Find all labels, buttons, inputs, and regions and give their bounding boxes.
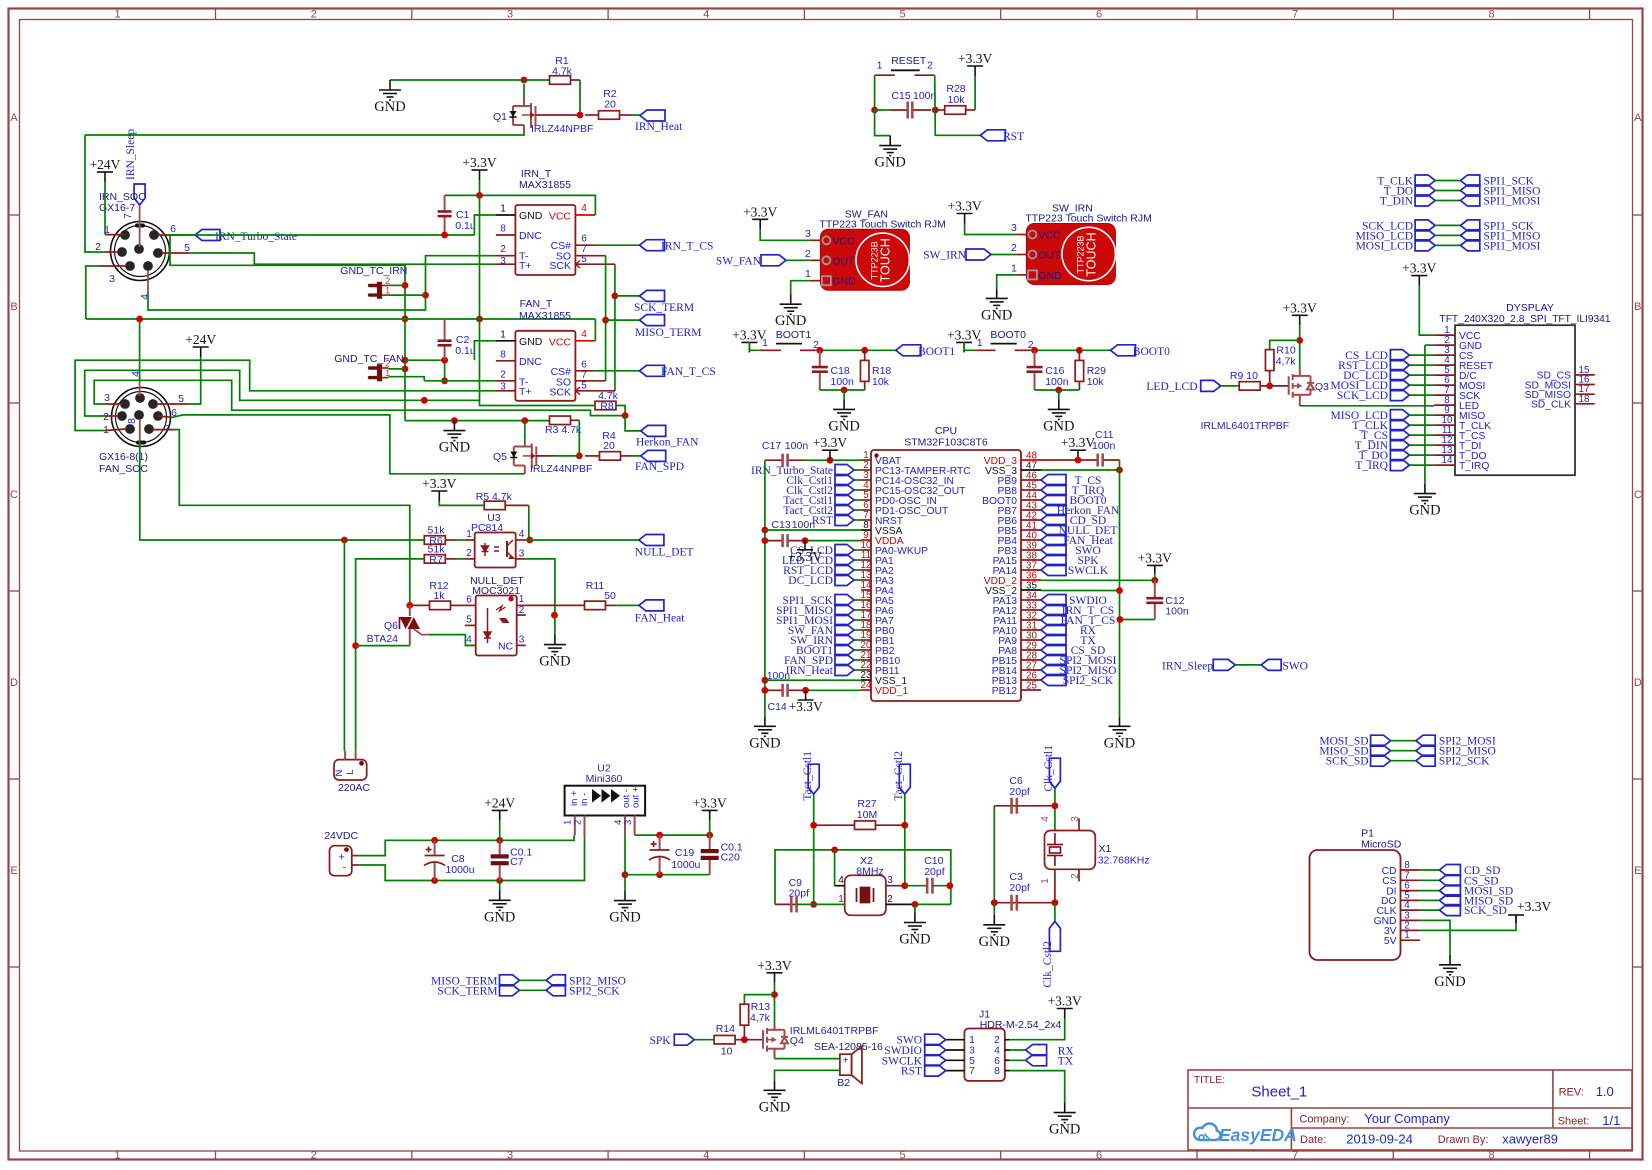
svg-text:6: 6 <box>466 595 472 606</box>
svg-text:24VDC: 24VDC <box>324 830 358 842</box>
ground <box>833 399 855 419</box>
net flag T_CLK <box>1390 420 1409 431</box>
pin 6 lead (CS#) <box>575 244 595 246</box>
power flag +3.3V <box>702 810 718 820</box>
wire tie <box>520 979 547 981</box>
wire sw1 down <box>874 75 876 110</box>
speaker B2 <box>840 1046 862 1083</box>
ground <box>1048 399 1070 419</box>
pin 9 lead <box>1434 414 1455 416</box>
net flag FAN_Heat <box>1041 535 1066 546</box>
wire +3.3V to R28 <box>974 76 976 110</box>
net flag BOOT0 <box>1111 345 1136 356</box>
svg-text:1: 1 <box>500 204 506 215</box>
U2 pin 3 lead <box>634 816 636 836</box>
power flag +3.3V <box>1292 315 1308 325</box>
resistor R13 <box>740 1004 749 1039</box>
wire C14 to VDD_1 <box>806 689 861 691</box>
wire NULL_DET <box>526 539 639 541</box>
svg-text:VCC: VCC <box>549 211 572 223</box>
node C cap <box>1031 347 1038 354</box>
net tie SCK_TERM-SPI2_SCK <box>500 985 520 996</box>
wire to R1 <box>524 79 550 81</box>
net flag IRN_T_CS <box>640 240 665 251</box>
wire tie <box>1435 190 1460 192</box>
pin 2 lead <box>1016 254 1026 256</box>
svg-text:2: 2 <box>466 548 472 559</box>
pin 12 lead <box>1434 444 1455 446</box>
svg-text:2: 2 <box>103 411 109 423</box>
wire VCC drop FAN_T <box>594 319 596 341</box>
svg-text:A: A <box>10 112 18 124</box>
svg-text:100n: 100n <box>1045 376 1069 388</box>
svg-text:8: 8 <box>994 1066 1000 1077</box>
wire Q1 source stub <box>523 125 525 136</box>
svg-text:IRLZ44NPBF: IRLZ44NPBF <box>530 463 592 475</box>
node Q1 drain / R2 <box>577 112 584 119</box>
net flag Tact_Cstl1 <box>835 495 854 506</box>
pin 42 lead <box>1021 519 1041 521</box>
svg-text:BOOT0: BOOT0 <box>990 329 1026 341</box>
svg-text:MAX31855: MAX31855 <box>519 179 571 191</box>
power flag +3.3V <box>957 214 973 224</box>
wire flag to pin <box>854 509 861 511</box>
wire +24V rail to U2 pin1 <box>435 835 574 840</box>
svg-text:R14: R14 <box>716 1023 735 1035</box>
svg-text:1: 1 <box>500 329 506 340</box>
node C7 top <box>496 837 503 844</box>
wire out+ row <box>635 834 710 836</box>
node gnd <box>841 387 848 394</box>
wire +24V to pin1 <box>104 182 106 235</box>
svg-text:R9 10: R9 10 <box>1230 370 1258 382</box>
net flag MOSI_LCD <box>1390 380 1409 391</box>
connector FAN_SOC GX16-8 <box>112 388 171 447</box>
node shield rail / C2 row <box>402 357 409 364</box>
wire C13 to VDDA <box>805 540 861 542</box>
wire TC_FAN pin1 to T- <box>389 377 425 381</box>
svg-text:SPK: SPK <box>649 1035 671 1047</box>
U2 pin 1 lead <box>574 816 576 836</box>
svg-text:RST: RST <box>901 1066 922 1078</box>
node SCK_TERM tap <box>612 293 619 300</box>
svg-text:B: B <box>1634 301 1641 313</box>
wire +3.3V to switch <box>964 342 974 350</box>
pin 24 lead <box>861 689 871 691</box>
wire R2 to IRN_Heat <box>633 114 640 116</box>
pin 46 lead <box>1021 479 1041 481</box>
wire Q3 drain to TFT LED <box>1300 405 1434 407</box>
svg-text:4: 4 <box>519 529 525 540</box>
wire pin8 to R6 <box>140 441 424 540</box>
wire pin4 to T- row <box>148 256 496 310</box>
svg-text:SEA-12085-16: SEA-12085-16 <box>814 1041 883 1053</box>
net flag MISO_SD <box>1439 895 1460 906</box>
pin 6 lead <box>1005 1059 1010 1061</box>
svg-text:+3.3V: +3.3V <box>813 435 847 450</box>
wire flag to pin <box>854 559 861 561</box>
wire U2 out- to gnd <box>624 835 626 890</box>
node C7 bottom <box>496 877 503 884</box>
wire speaker gnd <box>775 1070 840 1080</box>
U3 pin 2 lead <box>465 558 475 560</box>
MOC pin 3 lead <box>517 644 526 646</box>
pin 3 lead <box>946 1049 965 1051</box>
svg-text:8: 8 <box>500 349 506 360</box>
net flag SWCLK <box>1041 565 1066 576</box>
node X2 pin1 <box>810 901 817 908</box>
node VDD_1 row <box>762 687 769 694</box>
net flag LED_LCD <box>835 555 854 566</box>
wire flag to pin <box>854 629 861 631</box>
pin 21 lead <box>861 659 871 661</box>
svg-text:TTP223 Touch Switch RJM: TTP223 Touch Switch RJM <box>1025 213 1151 225</box>
wire flag to pin <box>1409 364 1434 366</box>
svg-text:3: 3 <box>519 635 525 646</box>
pin 5 lead <box>1434 374 1455 376</box>
svg-text:BOOT0: BOOT0 <box>1133 346 1170 358</box>
svg-text:+3.3V: +3.3V <box>1517 899 1551 914</box>
svg-text:GND: GND <box>749 735 780 751</box>
svg-text:2: 2 <box>311 9 317 21</box>
net flag TX <box>1026 1055 1047 1066</box>
svg-text:GND_TC_FAN: GND_TC_FAN <box>334 353 403 365</box>
wire pin3 down <box>86 266 100 319</box>
svg-text:RST: RST <box>1003 131 1024 143</box>
svg-text:C7: C7 <box>510 856 524 868</box>
net flag SWDIO <box>925 1045 946 1056</box>
svg-text:GND: GND <box>374 99 405 115</box>
svg-text:IRN_Sleep: IRN_Sleep <box>1162 660 1213 672</box>
wire +3.3V stem <box>479 180 481 195</box>
node R27 right <box>901 822 908 829</box>
wire flag to OUT <box>991 254 1016 256</box>
svg-text:1000u: 1000u <box>445 864 474 876</box>
net flag Clk_Cstl2 <box>835 485 854 496</box>
net flag FAN_T_CS <box>640 365 665 376</box>
svg-text:GND: GND <box>899 932 930 948</box>
wire GND pin <box>791 281 811 295</box>
svg-text:Sheet_1: Sheet_1 <box>1251 1084 1307 1101</box>
svg-text:2: 2 <box>573 820 584 825</box>
svg-text:xawyer89: xawyer89 <box>1502 1132 1558 1147</box>
svg-text:+3.3V: +3.3V <box>1138 550 1172 565</box>
net flag BOOT1 <box>896 345 921 356</box>
wire flag to pin <box>854 639 861 641</box>
wire R6 to U3 pin1 <box>457 539 465 541</box>
node X2 pin3/C10 <box>901 882 908 889</box>
wire C2 gnd to pin1 <box>474 341 496 360</box>
FAN_T MAX31855 block <box>515 331 575 401</box>
wire +3.3V to VCC <box>760 229 810 240</box>
svg-text:GND: GND <box>519 336 543 348</box>
resistor R18 <box>860 350 869 390</box>
svg-text:1.0: 1.0 <box>1596 1084 1614 1099</box>
svg-text:+3.3V: +3.3V <box>462 155 496 170</box>
wire VSS_1 row <box>765 679 861 681</box>
pin 1 lead <box>105 234 125 236</box>
svg-text:4: 4 <box>581 329 587 340</box>
capacitor C17 <box>781 454 805 467</box>
pin 3 lead (T+) <box>496 390 516 392</box>
pin 2 lead <box>105 415 118 417</box>
node +3.3V down-flag 2 <box>802 687 809 694</box>
wire to +3.3V <box>709 820 711 835</box>
pin 5 lead <box>861 499 871 501</box>
svg-text:L: L <box>345 769 356 774</box>
wire pin6 to TX <box>1010 1059 1026 1061</box>
pin 2 lead <box>1401 929 1420 931</box>
wire right gnd rail <box>1119 460 1121 716</box>
net flag Herkon_FAN <box>1041 505 1066 516</box>
svg-text:OUT: OUT <box>1038 250 1061 262</box>
pin 2 lead <box>105 251 118 253</box>
svg-text:+3.3V: +3.3V <box>422 476 456 491</box>
pin 10 lead <box>861 549 871 551</box>
wire to Clk_Cstl2 <box>1054 903 1056 922</box>
pin 7 lead (SO) <box>575 255 605 257</box>
220AC pin L lead <box>355 751 357 760</box>
svg-text:20pf: 20pf <box>789 888 810 900</box>
pin 23 lead <box>861 679 871 681</box>
pin 1 lead <box>1434 334 1455 336</box>
pin 39 lead <box>1021 549 1041 551</box>
pin 8 lead <box>1401 869 1420 871</box>
node R12/Q6 MT1 <box>406 602 413 609</box>
wire Q6 MT2 to 220AC L rail <box>356 645 410 647</box>
svg-text:8: 8 <box>500 224 506 235</box>
svg-text:FAN_T: FAN_T <box>520 298 553 310</box>
svg-text:4,7k: 4,7k <box>1276 356 1297 368</box>
net flag SCK_SD <box>1439 905 1460 916</box>
switch contact left <box>760 349 781 351</box>
power flag +3.3V <box>767 973 783 983</box>
capacitor C3 <box>994 895 1017 911</box>
wire flag to pin <box>854 569 861 571</box>
pin 41 lead <box>1021 529 1041 531</box>
pin 1 lead <box>105 429 126 431</box>
svg-text:20pf: 20pf <box>1009 786 1030 798</box>
node Q6 MT2 / 220AC L <box>352 642 359 649</box>
svg-text:6: 6 <box>581 234 587 245</box>
power flag +3.3V <box>1508 915 1524 923</box>
connector 220AC <box>334 760 367 780</box>
resistor R12 <box>410 601 465 610</box>
svg-text:1: 1 <box>1404 930 1409 941</box>
svg-text:TTP223 Touch Switch RJM: TTP223 Touch Switch RJM <box>819 218 945 230</box>
svg-text:8: 8 <box>1488 1150 1494 1162</box>
display DYSPLAY TFT_240X320_2.8_SPI_TFT_ILI9341 <box>1455 325 1575 475</box>
svg-text:SPI2_SCK: SPI2_SCK <box>1063 675 1114 687</box>
svg-text:50: 50 <box>604 590 616 602</box>
svg-text:8: 8 <box>1488 9 1494 21</box>
pin 8 lead <box>496 360 516 362</box>
pin 2 lead <box>810 259 820 261</box>
svg-text:NULL_DET: NULL_DET <box>635 547 694 559</box>
svg-text:GND: GND <box>981 307 1012 323</box>
svg-text:MicroSD: MicroSD <box>1361 839 1402 851</box>
net flag BOOT1 <box>835 645 854 656</box>
svg-text:+3.3V: +3.3V <box>788 549 822 564</box>
node TC_IRN pin2 <box>402 282 409 289</box>
wire flag to pin <box>854 519 861 521</box>
svg-text:IRLML6401TRPBF: IRLML6401TRPBF <box>790 1025 879 1037</box>
node +3.3V rail/FAN_T VCC <box>476 316 483 323</box>
svg-text:GND: GND <box>828 418 859 434</box>
net flag RST <box>925 1065 946 1076</box>
svg-text:4: 4 <box>466 635 472 646</box>
wire tie <box>1435 224 1460 226</box>
svg-text:1: 1 <box>466 529 472 540</box>
node VSS_2 rail <box>1116 587 1123 594</box>
net flag BOOT0 <box>1041 495 1066 506</box>
capacitor C14 <box>781 684 806 697</box>
wire GND pin <box>997 275 1017 289</box>
pin 20 lead <box>861 649 871 651</box>
pin 8 lead <box>139 419 141 441</box>
pin 5 lead <box>158 403 189 405</box>
wire pin6 <box>177 234 195 236</box>
node VDDA row <box>762 537 769 544</box>
net flag IRN_Heat <box>835 665 854 676</box>
ground <box>904 913 926 933</box>
capacitor C1 <box>438 195 452 235</box>
svg-text:T_IRQ: T_IRQ <box>1459 461 1489 472</box>
switch contact left <box>875 74 895 76</box>
net flag FAN_SPD <box>835 655 854 666</box>
svg-text:SPI2_SCK: SPI2_SCK <box>569 985 620 997</box>
wire X2 pin4 drop <box>834 850 836 886</box>
svg-text:3: 3 <box>500 256 506 267</box>
svg-text:GND: GND <box>759 1099 790 1115</box>
wire flag to pin <box>854 599 861 601</box>
net flag CS_SD <box>1041 645 1066 656</box>
wire pin1 staircase to FAN_T T+ <box>75 360 496 430</box>
net flag SPI1_MOSI <box>835 615 854 626</box>
node gnd <box>1055 387 1062 394</box>
svg-text:10k: 10k <box>948 94 966 106</box>
U3 pin 4 lead <box>516 539 526 541</box>
wire tie <box>1391 760 1416 762</box>
svg-text:5: 5 <box>900 1150 906 1162</box>
svg-text:SCK_SD: SCK_SD <box>1326 756 1369 768</box>
svg-text:SPI1_MOSI: SPI1_MOSI <box>1484 240 1541 252</box>
ground <box>986 288 1008 308</box>
svg-text:1: 1 <box>762 337 768 349</box>
wire Tact_Cstl2 down <box>904 794 906 886</box>
X2 pin 4 lead <box>835 885 845 887</box>
svg-text:C19: C19 <box>675 847 694 859</box>
node TC_FAN pin1 rail? <box>421 397 428 404</box>
svg-text:T+: T+ <box>519 386 532 398</box>
resistor R1 <box>550 76 581 85</box>
pin 36 lead <box>1021 579 1041 581</box>
svg-text:4: 4 <box>581 203 587 214</box>
capacitor C18 <box>812 350 828 390</box>
wire IRN_Sleep-SWO <box>1235 664 1261 666</box>
pin 15 lead <box>861 599 871 601</box>
wire R8 to Herkon node <box>616 406 625 416</box>
svg-text:C17: C17 <box>762 440 781 452</box>
wire flag to pin <box>854 619 861 621</box>
wire pin2 to +3.3V <box>1010 1019 1065 1040</box>
wire C1 gnd row <box>170 234 474 236</box>
svg-text:+3.3V: +3.3V <box>1048 994 1082 1009</box>
svg-text:Herkon_FAN: Herkon_FAN <box>636 437 699 449</box>
connector P1 MicroSD <box>1310 850 1401 960</box>
net flag Tact_Cstl2 <box>835 505 854 516</box>
wire flag to pin <box>854 579 861 581</box>
pin 47 lead <box>1021 469 1041 471</box>
MOC3021 optotriac NULL_DET <box>476 596 517 656</box>
pin 38 lead <box>1021 559 1041 561</box>
svg-text:+: + <box>843 1056 849 1067</box>
svg-text:FAN_SPD: FAN_SPD <box>635 461 684 473</box>
svg-text:R8: R8 <box>600 401 614 413</box>
svg-text:1k: 1k <box>433 590 445 602</box>
pin 2 lead (T-) <box>496 380 516 382</box>
svg-text:GND: GND <box>1049 1122 1080 1138</box>
svg-text:10: 10 <box>721 1046 733 1058</box>
power flag +3.3V <box>822 450 838 460</box>
X2 pin 2 lead <box>886 903 915 905</box>
svg-text:Company:: Company: <box>1299 1114 1349 1126</box>
svg-text:out +: out + <box>631 786 642 808</box>
wire flag to pin <box>854 499 861 501</box>
net flag Clk_Cstl1 <box>835 475 854 486</box>
svg-text:R7: R7 <box>429 554 443 566</box>
wire +3.3V to VCC <box>965 224 1017 235</box>
U2 pin 2 lead <box>584 816 586 837</box>
svg-text:4: 4 <box>703 1150 709 1162</box>
wire cap/res bottom <box>820 389 865 391</box>
pin 17 lead <box>1575 393 1595 395</box>
svg-text:C: C <box>1634 489 1642 501</box>
power flag +3.3V <box>1070 450 1086 460</box>
net flag SPK <box>1041 555 1066 566</box>
svg-text:DYSPLAY: DYSPLAY <box>1506 302 1554 314</box>
switch contact left <box>975 349 996 351</box>
svg-text:6: 6 <box>581 359 587 370</box>
node +3.3V rail top <box>476 192 483 199</box>
pin 4 lead <box>139 381 141 396</box>
net flag MISO_LCD <box>1390 410 1409 421</box>
wire R10 bottom <box>1269 371 1271 386</box>
node +3.3V pin48 <box>1075 457 1082 464</box>
wire flag to pin <box>1409 414 1434 416</box>
ground <box>1109 716 1131 736</box>
resistor R10 <box>1265 350 1274 376</box>
pin 10 lead <box>1434 424 1455 426</box>
svg-text:GND: GND <box>874 155 905 171</box>
net flag RST <box>980 130 1005 141</box>
op-amp U3 PC814 optocoupler <box>475 533 516 568</box>
wire to Herkon flag <box>625 416 641 431</box>
node C19 top <box>656 832 663 839</box>
svg-text:MOSI_LCD: MOSI_LCD <box>1356 240 1414 252</box>
net flag RST <box>835 515 854 526</box>
wire +24V stem <box>499 820 501 840</box>
wire R1 to Q1 drain-right node <box>579 80 581 115</box>
svg-text:20pf: 20pf <box>924 866 945 878</box>
pin 4 lead <box>1005 1049 1010 1051</box>
U3 pin 3 lead <box>516 558 526 560</box>
pin 37 lead <box>1021 569 1041 571</box>
svg-text:GND: GND <box>775 313 806 329</box>
svg-text:1: 1 <box>838 894 844 905</box>
svg-text:VCC: VCC <box>832 235 855 247</box>
wire pin8 to gnd <box>1010 1071 1065 1103</box>
